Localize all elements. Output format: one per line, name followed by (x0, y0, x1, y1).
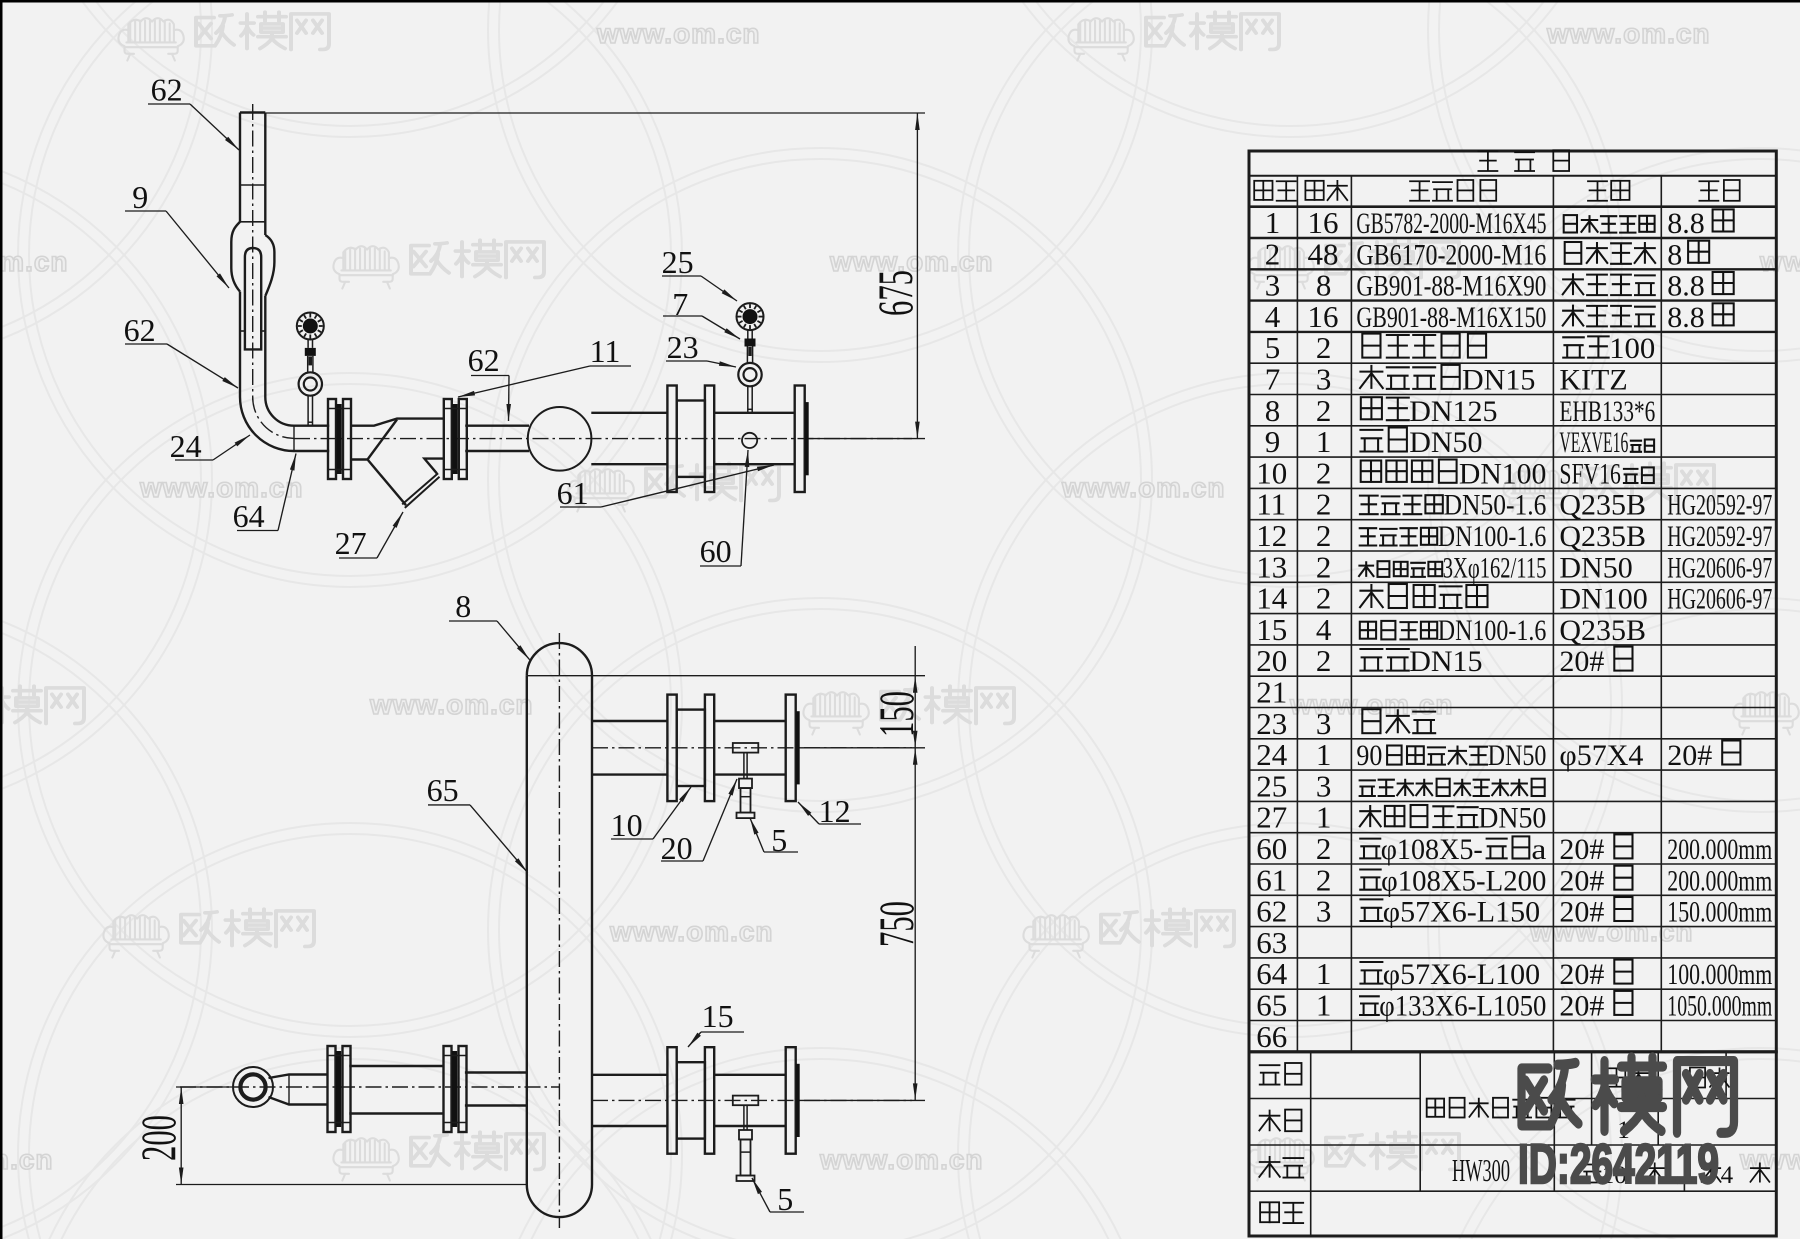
svg-text:24: 24 (170, 428, 202, 464)
svg-text:1050.000mm: 1050.000mm (1667, 990, 1772, 1023)
svg-text:4: 4 (1265, 299, 1281, 334)
svg-text:2: 2 (1316, 518, 1332, 553)
svg-text:2: 2 (1316, 487, 1332, 522)
svg-text:5: 5 (1265, 330, 1281, 365)
svg-text:www.om.cn: www.om.cn (0, 246, 69, 277)
svg-text:www.om.cn: www.om.cn (139, 472, 304, 503)
pipe DN100 after ball (591, 412, 667, 414)
svg-text:8: 8 (1316, 268, 1332, 303)
svg-text:12: 12 (1256, 518, 1287, 553)
svg-text:3: 3 (1316, 362, 1332, 397)
svg-text:25: 25 (1256, 768, 1287, 803)
svg-text:4: 4 (1316, 612, 1332, 647)
svg-text:23: 23 (667, 329, 699, 365)
svg-text:66: 66 (1256, 1019, 1287, 1054)
svg-text:8: 8 (1667, 238, 1682, 271)
svg-text:1: 1 (1265, 205, 1281, 240)
parts list table 明细表 (1249, 151, 1776, 1052)
svg-text:4: 4 (1721, 1162, 1734, 1189)
pressure gauge 25 / valve 7 / gauge bend 23 (right) (737, 303, 764, 330)
svg-text:www.om.cn: www.om.cn (1759, 246, 1800, 277)
upper branch DN100 with butterfly valve 10, flanges 15, end flange 12, drain valve 5, clamp 20 (592, 720, 667, 722)
svg-text:DN100: DN100 (1559, 583, 1647, 616)
svg-text:2: 2 (1316, 581, 1332, 616)
svg-text:60: 60 (700, 533, 732, 569)
svg-text:61: 61 (557, 475, 589, 511)
svg-text:KITZ: KITZ (1559, 364, 1627, 397)
svg-text:3: 3 (1316, 894, 1332, 929)
svg-text:65: 65 (1256, 988, 1287, 1023)
thermometer 5 / valve 7 / gauge bend 23 (left) (297, 313, 324, 340)
svg-text:14: 14 (1256, 581, 1288, 616)
dimension 675 (265, 112, 925, 114)
svg-text:DN50: DN50 (1488, 739, 1547, 772)
svg-text:27: 27 (335, 525, 367, 561)
svg-text:200.000mm: 200.000mm (1667, 833, 1772, 866)
svg-text:SFV16: SFV16 (1559, 457, 1621, 490)
svg-text:HG20606-97: HG20606-97 (1667, 551, 1772, 584)
svg-text:20#: 20# (1559, 990, 1604, 1023)
svg-text:DN15: DN15 (1462, 364, 1535, 397)
svg-text:Q235B: Q235B (1559, 489, 1646, 522)
svg-text:150.000mm: 150.000mm (1667, 896, 1772, 929)
spherical weld joint (reducer ball) (528, 407, 592, 471)
svg-text:1: 1 (1316, 988, 1332, 1023)
svg-text:2: 2 (1316, 393, 1332, 428)
svg-text:11: 11 (590, 333, 621, 369)
svg-text:2: 2 (1316, 831, 1332, 866)
svg-text:GB901-88-M16X90: GB901-88-M16X90 (1356, 270, 1546, 303)
Y-strainer 27 (DN50) (350, 419, 444, 426)
svg-text:16: 16 (1308, 299, 1339, 334)
title block (1249, 1052, 1776, 1236)
pipe spool 61 (DN108X5 L200) (714, 412, 795, 414)
pipe segment 62 (vertical riser) (239, 113, 241, 222)
svg-text:φ57X6-L100: φ57X6-L100 (1383, 958, 1540, 991)
svg-text:150: 150 (868, 691, 924, 737)
svg-text:HG20592-97: HG20592-97 (1667, 520, 1772, 553)
svg-text:25: 25 (662, 244, 694, 280)
svg-text:24: 24 (1256, 737, 1288, 772)
svg-text:1: 1 (1316, 424, 1332, 459)
butterfly valve 10 with flanges 15 (DN100) (667, 386, 676, 493)
svg-text:61: 61 (1256, 862, 1287, 897)
lower-left branch: elbow 24 end view, flange pairs 11, spool 61 (233, 1067, 273, 1107)
svg-text:1: 1 (1316, 737, 1332, 772)
svg-text:7: 7 (1265, 362, 1281, 397)
svg-text:8: 8 (1265, 393, 1281, 428)
svg-text:200.000mm: 200.000mm (1667, 864, 1772, 897)
pipe 64 (DN50 L100) (294, 425, 329, 427)
svg-text:2: 2 (1316, 455, 1332, 490)
svg-text:10: 10 (1256, 455, 1287, 490)
svg-text:2: 2 (1316, 549, 1332, 584)
svg-text:100: 100 (1609, 332, 1655, 365)
svg-text:DN50: DN50 (1478, 802, 1546, 835)
svg-text:www.om.cn: www.om.cn (1546, 18, 1711, 49)
svg-text:20#: 20# (1559, 645, 1604, 678)
90-degree welded elbow 24 (DN50) (240, 397, 294, 451)
svg-text:VEXVE16: VEXVE16 (1559, 426, 1628, 459)
svg-text:8: 8 (455, 588, 471, 624)
svg-text:GB901-88-M16X150: GB901-88-M16X150 (1356, 301, 1546, 334)
svg-text:62: 62 (468, 342, 500, 378)
svg-text:www.om.cn: www.om.cn (596, 18, 761, 49)
svg-text:GB6170-2000-M16: GB6170-2000-M16 (1356, 238, 1546, 271)
svg-text:20#: 20# (1559, 958, 1604, 991)
svg-text:21: 21 (1256, 675, 1287, 710)
svg-text:www.om.cn: www.om.cn (369, 689, 534, 720)
svg-text:750: 750 (868, 901, 924, 947)
svg-text:3: 3 (1265, 268, 1281, 303)
svg-text:20#: 20# (1559, 864, 1604, 897)
svg-text:9: 9 (1265, 424, 1281, 459)
svg-text:64: 64 (1256, 956, 1288, 991)
port a 60 (tapping hole) (742, 433, 757, 448)
dimensions 150 / 750 / 200 (914, 646, 916, 1100)
svg-text:62: 62 (151, 71, 183, 107)
svg-text:DN50: DN50 (1559, 551, 1632, 584)
svg-text:Q235B: Q235B (1559, 520, 1646, 553)
svg-text:1: 1 (1316, 956, 1332, 991)
svg-text:ID:2642119: ID:2642119 (1518, 1132, 1719, 1195)
svg-text:φ108X5-: φ108X5- (1381, 833, 1483, 866)
svg-text:www.om.cn: www.om.cn (819, 1144, 984, 1175)
svg-text:60: 60 (1256, 831, 1287, 866)
svg-text:63: 63 (1256, 925, 1287, 960)
svg-text:HG20606-97: HG20606-97 (1667, 583, 1772, 616)
svg-text:DN15: DN15 (1409, 645, 1482, 678)
svg-text:11: 11 (1256, 487, 1286, 522)
wire: horizontal centerline of upper assembly (294, 438, 912, 440)
pipe 62 (DN50 L150) (465, 425, 529, 427)
svg-text:GB5782-2000-M16X45: GB5782-2000-M16X45 (1356, 207, 1546, 240)
header pipe 65 (DN133X6 L1050) with heads 8 (DN125) (526, 676, 528, 1185)
svg-text:DN125: DN125 (1409, 395, 1497, 428)
svg-text:2: 2 (1316, 643, 1332, 678)
svg-text:3: 3 (1316, 768, 1332, 803)
ball valve 9 (DN50, section view) (231, 222, 240, 292)
svg-text:www.om.cn: www.om.cn (609, 916, 774, 947)
svg-text:8.8: 8.8 (1667, 270, 1705, 303)
svg-text:20: 20 (1256, 643, 1287, 678)
page edge strips (0, 0, 1800, 3)
svg-text:www.om.cn: www.om.cn (1289, 689, 1454, 720)
svg-text:90: 90 (1356, 739, 1382, 772)
svg-text:15: 15 (1256, 612, 1287, 647)
svg-text:1: 1 (1316, 800, 1332, 835)
svg-text:φ108X5-L200: φ108X5-L200 (1381, 864, 1546, 897)
svg-text:8.8: 8.8 (1667, 301, 1705, 334)
flange pair 11 (DN50-1.6) with gasket 13 (328, 399, 336, 479)
flange pair 11 (second, DN50-1.6) (444, 399, 452, 479)
svg-text:2: 2 (1316, 862, 1332, 897)
svg-text:10: 10 (611, 807, 643, 843)
svg-text:2: 2 (1265, 236, 1281, 271)
svg-text:64: 64 (233, 498, 265, 534)
svg-text:www.om.cn: www.om.cn (1061, 472, 1226, 503)
svg-text:62: 62 (124, 312, 156, 348)
svg-text:8.8: 8.8 (1667, 207, 1705, 240)
svg-text:13: 13 (1256, 549, 1287, 584)
svg-text:16: 16 (1308, 205, 1339, 240)
svg-text:48: 48 (1308, 236, 1339, 271)
lower branch DN100 with butterfly valve 10, flanges 15, end flange 12, drain valve 5 (592, 1074, 667, 1076)
svg-text:3Xφ162/115: 3Xφ162/115 (1443, 551, 1547, 584)
svg-text:9: 9 (132, 179, 148, 215)
svg-text:62: 62 (1256, 894, 1287, 929)
svg-text:www.om.cn: www.om.cn (0, 1144, 54, 1175)
site logo 欧模网 ID:2642119 (1522, 1063, 1579, 1126)
svg-text:HW300: HW300 (1452, 1152, 1510, 1188)
svg-text:a: a (1531, 833, 1546, 866)
svg-text:DN100-1.6: DN100-1.6 (1438, 520, 1547, 553)
svg-text:15: 15 (702, 998, 734, 1034)
svg-text:20#: 20# (1559, 896, 1604, 929)
svg-text:φ57X4: φ57X4 (1559, 739, 1643, 772)
svg-text:EHB133*6: EHB133*6 (1559, 395, 1655, 428)
watermark background: circles, sofa logos, www.om.cn (18, 0, 682, 587)
svg-text:100.000mm: 100.000mm (1667, 958, 1772, 991)
svg-text:Q235B: Q235B (1559, 614, 1646, 647)
svg-text:23: 23 (1256, 706, 1287, 741)
svg-text:φ133X6-L1050: φ133X6-L1050 (1379, 990, 1546, 1023)
svg-text:DN100-1.6: DN100-1.6 (1438, 614, 1547, 647)
svg-text:20#: 20# (1667, 739, 1712, 772)
end flange 12 with gasket 14 (795, 386, 805, 493)
svg-text:65: 65 (427, 772, 459, 808)
svg-text:27: 27 (1256, 800, 1287, 835)
svg-text:2: 2 (1316, 330, 1332, 365)
svg-text:20#: 20# (1559, 833, 1604, 866)
svg-text:DN100: DN100 (1459, 457, 1547, 490)
svg-text:3: 3 (1316, 706, 1332, 741)
svg-text:DN50: DN50 (1409, 426, 1482, 459)
svg-text:www.om.cn: www.om.cn (1739, 1144, 1800, 1175)
svg-text:675: 675 (867, 270, 923, 316)
svg-text:HG20592-97: HG20592-97 (1667, 489, 1772, 522)
svg-text:DN50-1.6: DN50-1.6 (1444, 489, 1547, 522)
svg-text:φ57X6-L150: φ57X6-L150 (1383, 896, 1540, 929)
svg-text:200: 200 (130, 1115, 186, 1161)
